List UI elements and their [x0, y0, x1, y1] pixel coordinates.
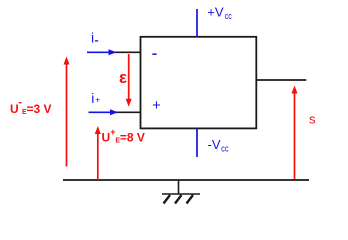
output voltage arrow s [292, 86, 298, 181]
svg-text:+: + [95, 95, 100, 105]
label U-E=3V [10, 102, 52, 116]
svg-text:-V: -V [208, 137, 221, 152]
current arrow i+ [89, 109, 119, 115]
svg-text:i: i [91, 29, 94, 45]
wire inverting input [113, 51, 141, 53]
svg-text:+: + [110, 127, 115, 137]
svg-text:s: s [309, 112, 316, 127]
svg-text:ε: ε [119, 68, 127, 87]
differential voltage arrow epsilon [126, 54, 132, 107]
label i- [91, 29, 98, 45]
op-amp block U1 [141, 37, 257, 129]
label -Vcc [208, 137, 230, 154]
current arrow i- [87, 49, 117, 55]
label +Vcc [207, 4, 232, 21]
svg-text:+: + [152, 98, 160, 114]
inverting input marker - [152, 53, 156, 55]
output wire [256, 79, 306, 81]
svg-text:cc: cc [221, 144, 229, 154]
svg-text:i: i [91, 90, 94, 106]
label U+E=8V [102, 127, 145, 145]
ground rail [63, 179, 309, 181]
voltage arrow U-E [64, 57, 70, 167]
ground symbol [162, 180, 200, 204]
label i+ [91, 90, 100, 106]
svg-text:U: U [10, 102, 19, 116]
svg-text:+V: +V [207, 4, 224, 19]
svg-text:=3 V: =3 V [27, 102, 52, 116]
svg-text:=8 V: =8 V [120, 131, 145, 145]
+Vcc supply wire [196, 9, 198, 37]
-Vcc supply wire [196, 129, 198, 158]
svg-text:U: U [102, 131, 111, 145]
wire non-inverting input [114, 111, 141, 113]
svg-text:cc: cc [225, 11, 232, 21]
voltage arrow U+E [95, 126, 101, 180]
